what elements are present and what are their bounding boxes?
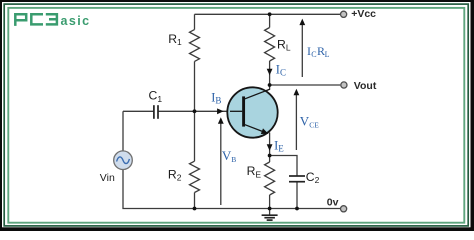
svg-text:Vout: Vout — [354, 80, 377, 92]
svg-text:0v: 0v — [327, 197, 339, 209]
svg-text:+Vcc: +Vcc — [351, 8, 376, 20]
svg-text:Vin: Vin — [100, 172, 115, 184]
svg-text:asic: asic — [61, 14, 91, 28]
